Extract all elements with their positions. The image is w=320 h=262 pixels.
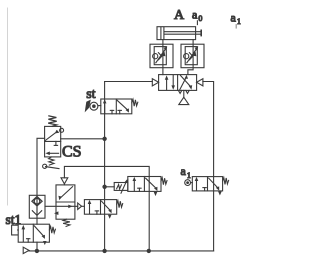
svg-text:1: 1 <box>187 171 191 180</box>
svg-text:1: 1 <box>237 17 241 26</box>
V3 valve (3/2) body <box>128 177 161 197</box>
V1 left box down arrow <box>172 75 174 86</box>
a1 valve return spring <box>223 178 229 185</box>
V1 exhaust port marks <box>178 90 181 93</box>
V4 return spring <box>117 201 123 208</box>
wire: CS valve left port down to shuttle box (x=37) <box>37 138 45 224</box>
V1 right pilot <box>197 79 203 86</box>
a1 valve label <box>181 164 191 180</box>
svg-text:CS: CS <box>62 144 82 161</box>
CS valve (3/2, vertical) body <box>45 126 64 156</box>
svg-text:st: st <box>86 87 95 102</box>
CS roller lever return spring <box>49 157 54 165</box>
junction node at V3 pilot branch <box>102 185 106 189</box>
a1 valve (3/2 roller limit) body <box>192 177 222 196</box>
page edge faint line <box>7 8 9 205</box>
st valve roller actuator <box>85 100 101 113</box>
st valve body <box>101 99 132 114</box>
shuttle/check box CK1 <box>29 195 45 218</box>
V1 right box crossed arrows <box>180 77 186 89</box>
st1 valve (3/2 push button) body <box>18 224 49 245</box>
wire: main vertical net from st valve down to supply bus (x=104.6) <box>104 82 106 251</box>
svg-text:a: a <box>181 164 187 178</box>
junction node at CS output on main vertical <box>102 137 106 141</box>
wire: shuttle box right port through V2 to V4 pilot <box>45 205 78 207</box>
wire: st valve output to V1 left pilot <box>105 81 153 83</box>
V1 left box up arrow <box>166 79 168 90</box>
svg-text:a: a <box>192 8 198 22</box>
wire: st1 valve bottom port to bus <box>36 242 38 251</box>
label a0 <box>192 8 202 24</box>
V4 pilot triangle <box>78 203 82 209</box>
a0 position tick <box>196 21 198 25</box>
junction node bus x=148.8 <box>147 249 151 253</box>
V4 valve (3/2) body <box>84 200 116 219</box>
wire: junction to V3 pilot box <box>105 186 115 188</box>
V2 pilot triangle (top) <box>61 178 68 184</box>
wire: V4 pilot apex to V4 body <box>82 205 85 207</box>
a1 position tick <box>235 25 237 28</box>
cylinder A body <box>157 27 201 40</box>
a1 valve roller <box>185 180 193 186</box>
st1 return spring <box>49 226 55 233</box>
V2 bottom spring <box>63 219 70 226</box>
wire: cylinder left port through flow control FC1 to valve V1 port A <box>162 40 164 75</box>
wire: V1 right pilot to a1 valve vertical (x=213.6) <box>203 82 214 251</box>
flow control valve FC2 (check + throttle) <box>181 44 204 67</box>
supply bus wire <box>29 250 214 252</box>
flow control valve FC1 (check + throttle) <box>150 44 173 67</box>
junction node bus x=104.6 <box>102 249 106 253</box>
V3 pilot box with adjustable spring <box>114 179 128 194</box>
V3 return spring <box>161 178 167 185</box>
st1 push button actuator <box>12 225 19 235</box>
V1 exhaust stem and silencer triangle <box>183 90 185 97</box>
svg-text:A: A <box>174 8 185 23</box>
wire: cylinder right port through flow control FC2 to valve V1 port B <box>188 40 193 75</box>
wire: CS valve right port to main vertical <box>61 138 105 140</box>
wire: V2 pilot line from corner to V3 top, down through V3 to bus <box>64 166 149 251</box>
main valve V1 (5/2 pilot-pilot) body <box>159 75 197 105</box>
compressed air supply source <box>23 247 29 253</box>
label a1 (top right, faint) <box>231 11 241 27</box>
svg-text:a: a <box>231 11 237 25</box>
junction node bus x=37 <box>35 249 39 253</box>
svg-text:0: 0 <box>198 14 202 23</box>
st valve return spring <box>132 99 138 106</box>
CS valve top spring <box>48 116 57 126</box>
V2 valve (3/2, vertical) body <box>54 185 75 219</box>
CS roller <box>43 164 47 168</box>
V1 left pilot <box>152 79 158 86</box>
CS roller lever <box>46 167 60 169</box>
